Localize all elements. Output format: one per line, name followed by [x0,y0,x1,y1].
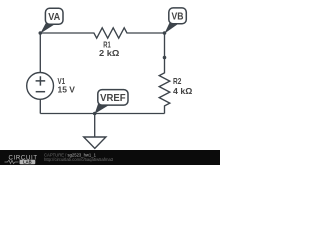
resistor R2 [159,58,170,114]
wires and resistors group [40,28,170,137]
svg-text:2 kΩ: 2 kΩ [99,48,120,58]
node flag VA tail [40,23,54,33]
node A dot (VA) [39,31,43,35]
svg-text:http://circuitlab.com/c/5aqa5w: http://circuitlab.com/c/5aqa5w5afma3 [44,157,114,162]
ground stub wire [94,114,96,138]
wire left rail lower [39,99,41,113]
node flag VREF tail [95,104,109,114]
svg-text:4 kΩ: 4 kΩ [173,86,193,96]
CircuitLab logo LAB box [20,160,36,164]
svg-text:VA: VA [48,12,60,23]
svg-text:15 V: 15 V [58,85,76,95]
V1 minus sign [36,91,45,93]
svg-text:VREF: VREF [100,93,126,104]
wire left rail upper [39,33,41,73]
wire bottom rail [40,113,164,115]
CircuitLab logo squiggle [5,160,19,163]
node flag VA box [45,8,63,24]
junction dot R2 top terminal [163,56,167,60]
node flag VREF box [98,90,128,106]
node flag VB tail [165,23,179,34]
wire top rail + resistor R1 [40,28,164,38]
svg-text:VB: VB [172,11,184,22]
svg-text:R2: R2 [173,76,182,86]
ground symbol triangle [84,137,106,148]
node VREF dot [93,112,97,116]
V1 plus sign [36,76,46,85]
wire right rail upper [164,33,166,58]
node B dot (VB) [163,31,167,35]
node flag VB box [169,8,187,24]
voltage source V1 circle [27,73,54,100]
svg-text:LAB: LAB [23,159,32,164]
watermark bottom bar [0,150,220,165]
